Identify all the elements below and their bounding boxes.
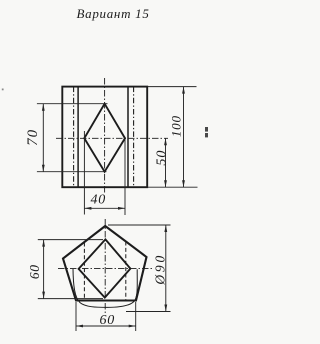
page-edge mark right [205, 127, 208, 137]
rhombus hole [84, 104, 125, 172]
dimension 50 [165, 138, 167, 187]
svg-text:Ø90: Ø90 [153, 253, 168, 286]
diamond (hole intersection) [79, 239, 131, 297]
hidden hole edge left [83, 243, 85, 301]
dimension 60 left [38, 240, 103, 299]
vertical axis front view [104, 78, 106, 193]
svg-text:Вариант 15: Вариант 15 [76, 6, 149, 21]
cylinder outline rectangle [62, 87, 147, 188]
prism edge dash-dot left [73, 87, 75, 188]
svg-text:60: 60 [99, 313, 115, 328]
speck top-left [2, 89, 4, 91]
horizontal axis plan [58, 268, 152, 270]
dimension 60 bottom [76, 302, 136, 331]
horizontal center line front view [56, 137, 168, 139]
hidden hole edge right [125, 242, 127, 301]
dimension Ø90 [108, 225, 171, 312]
prism edge dash-dot right [133, 87, 135, 188]
dimension 100 [147, 87, 197, 188]
prism edge solid left [77, 87, 79, 188]
svg-text:50: 50 [155, 150, 170, 166]
svg-text:100: 100 [169, 115, 184, 137]
dimension 40 [84, 131, 125, 215]
svg-text:40: 40 [90, 193, 106, 208]
vertical axis plan [104, 219, 106, 313]
prism edge solid right [127, 87, 129, 188]
svg-text:70: 70 [25, 129, 41, 146]
pentagon prism [63, 226, 147, 301]
cylinder base curve (lower half, hand-drawn squashed) [73, 269, 137, 308]
svg-text:60: 60 [27, 264, 42, 279]
dimension 70 [37, 104, 108, 172]
